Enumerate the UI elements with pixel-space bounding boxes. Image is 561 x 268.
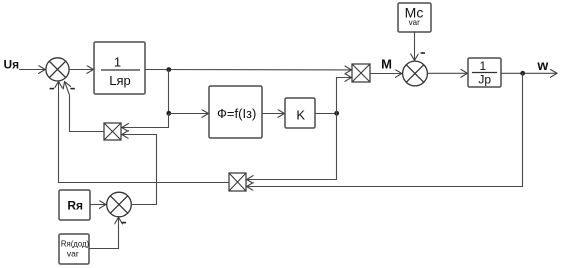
wire 1/Jp output to w xyxy=(501,72,557,74)
svg-text:M: M xyxy=(381,57,392,72)
block 1/Jp xyxy=(468,58,501,87)
multiplier X1 xyxy=(104,123,121,140)
wire S2 to block 1/Jp xyxy=(427,72,467,74)
summing junction S2 xyxy=(403,61,428,86)
svg-text:Rя(дод): Rя(дод) xyxy=(61,240,90,249)
block K xyxy=(285,98,315,128)
minus sign at S3 bottom input xyxy=(122,222,126,224)
svg-text:Lяр: Lяр xyxy=(109,73,131,88)
svg-text:var: var xyxy=(67,248,79,258)
wire X3 output to summing junction S2 xyxy=(370,73,402,75)
block Ф=f(Iз) xyxy=(209,86,262,138)
wire S1 to block 1/Lяр xyxy=(69,69,93,71)
minus sign at S1 left input xyxy=(50,88,54,90)
node dot on main line xyxy=(166,67,171,72)
wire Uя input to summing junction S1 xyxy=(19,69,45,71)
wire node to block Ф=f(Iз) xyxy=(169,113,208,115)
block Mc var xyxy=(398,3,431,32)
wire Rя(дод) output right and up to S3 bottom input xyxy=(89,218,119,249)
summing junction S3 xyxy=(107,192,132,217)
wire w node down and left to multiplier X2 bottom input xyxy=(247,73,523,186)
minus sign at S2 top input xyxy=(421,52,425,54)
svg-text:Jp: Jp xyxy=(478,73,491,87)
wire Rя to summing junction S3 xyxy=(90,204,106,206)
wire 1/Lяр output to multiplier X3 xyxy=(145,69,351,71)
wire S3 output right, up to X1 bottom input xyxy=(122,135,157,205)
block 1/Lяр xyxy=(94,42,145,94)
svg-text:Uя: Uя xyxy=(4,58,20,72)
wire Ф block to K block xyxy=(262,113,284,115)
block Rя xyxy=(59,190,90,220)
svg-text:1: 1 xyxy=(480,59,487,73)
wire Mc block down to S2 xyxy=(414,32,416,60)
block Rя(дод) var xyxy=(59,234,90,264)
node dot at output xyxy=(520,71,525,76)
multiplier X3 xyxy=(352,64,370,82)
svg-text:var: var xyxy=(409,18,420,27)
wire vertical from main line node down xyxy=(168,70,170,114)
wire K node down and left to multiplier X2 top input xyxy=(247,114,337,180)
minus sign at S1 right input xyxy=(70,88,74,90)
svg-text:Rя: Rя xyxy=(67,198,83,212)
summing junction S1 xyxy=(46,58,69,81)
svg-text:K: K xyxy=(296,107,305,122)
svg-text:1: 1 xyxy=(114,54,121,69)
node dot at K output xyxy=(334,111,339,116)
wire X1 output left, up, diagonal to S1 bottom-right input xyxy=(65,82,104,132)
wire X2 output left and up to S1 bottom input xyxy=(59,82,230,183)
node dot at flux branch xyxy=(166,111,171,116)
wire K node up to multiplier X3 lower input xyxy=(337,78,352,114)
svg-text:Ф=f(Iз): Ф=f(Iз) xyxy=(217,106,256,121)
wire node down and left to multiplier X1 top input xyxy=(122,114,169,128)
svg-text:w: w xyxy=(536,57,548,73)
wire K output to node xyxy=(315,113,337,115)
multiplier X2 xyxy=(229,173,246,191)
